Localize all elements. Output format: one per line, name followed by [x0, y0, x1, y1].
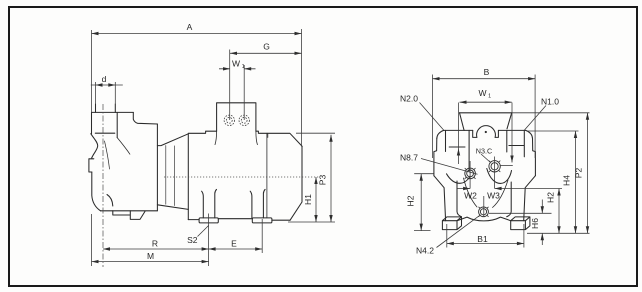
W3 line + H2 ext [495, 188, 562, 190]
svg-text:S2: S2 [187, 235, 198, 245]
foot pad right [511, 217, 530, 230]
casing foot fillet [107, 195, 113, 207]
right view dimension thin lines [414, 75, 590, 248]
arrowheads left view [92, 32, 333, 263]
N1.0 leader [525, 106, 547, 131]
plug N8 (left) [465, 168, 476, 179]
motor end face [290, 147, 302, 221]
plug bottom ext line [489, 212, 552, 214]
right leg outer [524, 176, 536, 221]
ground ext line right [527, 232, 590, 234]
inner volute curve right [493, 180, 509, 208]
svg-text:P3: P3 [318, 175, 328, 186]
dim line R [103, 248, 209, 250]
svg-text:N1.0: N1.0 [541, 97, 559, 107]
W3 arrow [495, 187, 502, 190]
dim line B [433, 78, 536, 80]
dim line d [91, 84, 123, 86]
ext line feet 2 [261, 219, 263, 253]
R arrows [103, 247, 110, 250]
M arrows [92, 260, 99, 263]
B1 ext left [446, 224, 448, 248]
adapter cone [157, 134, 188, 220]
H6 arrows [541, 206, 544, 213]
bowl under plug2 [487, 169, 512, 184]
P3/H1 ext bottom [288, 221, 335, 223]
motor underside left [157, 205, 199, 220]
dim line B1 [447, 243, 524, 245]
motor foot pad 1 [199, 218, 218, 223]
underside between legs [218, 218, 252, 220]
suction pipe stub [96, 104, 116, 112]
W1 arrows [460, 101, 467, 104]
motor top right [256, 131, 302, 146]
face top edges [444, 129, 526, 131]
svg-text:H2: H2 [546, 192, 556, 203]
W1 arrows [223, 67, 230, 70]
bottom dip between feet [457, 217, 511, 221]
cable gland circle 1 (dashed) [224, 115, 249, 125]
dim line W1 [219, 68, 256, 70]
port2 arrow stem [511, 103, 513, 163]
dim line H1 [315, 177, 317, 222]
N3.C leader [481, 154, 491, 163]
ext y131 right [527, 130, 579, 132]
plug N3 (center) [489, 161, 500, 172]
motor leg 2 [250, 189, 265, 218]
casing bottom [101, 210, 158, 212]
casing top curve [133, 112, 157, 124]
svg-text:A: A [187, 22, 193, 32]
arrowheads right view [420, 77, 590, 245]
H2 left ext top [414, 173, 433, 175]
plug2 side line [500, 164, 513, 166]
dim line H2 right [558, 189, 560, 234]
N2.0 leader [420, 103, 444, 131]
svg-text:1: 1 [488, 94, 491, 100]
N8.7 leader [421, 159, 478, 175]
terminal box sides [460, 113, 512, 131]
d arrows [96, 83, 103, 86]
svg-text:H4: H4 [562, 175, 572, 186]
svg-text:P2: P2 [574, 168, 584, 179]
labels right view [400, 67, 583, 256]
H2 left arrows [420, 174, 423, 181]
plug2 stem [494, 157, 496, 189]
top long extension line [512, 112, 590, 114]
motor seam [266, 133, 268, 218]
bottom plug centerline [483, 196, 485, 217]
vertical centerline (dash-dot) [102, 104, 104, 267]
plug1 stem [469, 161, 471, 189]
motor top seam tick [267, 133, 269, 137]
suction funnel taper [91, 134, 98, 158]
volute inner curve [117, 138, 130, 155]
motor axis dotted line [164, 176, 319, 178]
left shoulder [437, 130, 444, 138]
motor foot pad 2 [252, 218, 272, 223]
S2 leader [198, 226, 209, 237]
port2 down arrow [510, 156, 513, 163]
dim line P3 [330, 135, 332, 222]
motor leg 1 [202, 189, 217, 218]
dim line G [230, 52, 302, 54]
pump foot block [113, 211, 145, 220]
H1 arrows [314, 177, 317, 184]
ext line gland 2 [243, 65, 245, 120]
W2 line [457, 188, 470, 190]
ext lines d [96, 82, 116, 104]
svg-text:1: 1 [242, 64, 245, 70]
B ext left [432, 75, 434, 159]
inner volute curve left [464, 178, 478, 207]
B arrows [433, 77, 440, 80]
ext line left (A/M) [91, 30, 93, 266]
port1 arrow stem [458, 103, 460, 165]
dim line E [209, 248, 263, 250]
svg-text:G: G [263, 42, 270, 52]
H2 left ext bottom [414, 230, 431, 232]
dome [477, 126, 496, 138]
terminal box [217, 103, 256, 131]
dim line M [92, 261, 209, 263]
svg-text:W: W [478, 88, 486, 98]
casing right edge [156, 124, 158, 211]
B ext right [534, 75, 536, 159]
P3 ext top [296, 132, 335, 134]
ext line feet 1 [208, 214, 210, 267]
svg-text:M: M [147, 251, 154, 261]
svg-text:E: E [231, 239, 237, 249]
plug N4 (bottom) [479, 207, 489, 217]
svg-text:N3.C: N3.C [476, 147, 492, 156]
port1 up arrow [457, 149, 460, 156]
left port [446, 130, 470, 171]
right port [507, 130, 525, 156]
ext line right (A/G) [301, 29, 303, 147]
dome center dot [485, 131, 487, 133]
suction flange [92, 112, 134, 137]
svg-text:W2: W2 [464, 191, 477, 201]
G arrows [230, 52, 237, 55]
leg inner edges [457, 181, 511, 217]
svg-text:H2: H2 [406, 195, 416, 206]
labels left view [102, 22, 328, 261]
dim line H2 left [420, 174, 422, 231]
right shoulder [526, 130, 533, 138]
svg-text:N8.7: N8.7 [400, 153, 418, 163]
N4.2 leader [437, 215, 481, 248]
dim line P2 [587, 113, 589, 234]
B1 ext right [523, 224, 525, 248]
motor underside right [272, 219, 290, 221]
foot pad left [442, 217, 461, 230]
svg-text:B: B [484, 67, 490, 77]
bowl under plug1 [447, 174, 471, 184]
P3 arrows [329, 135, 332, 142]
B1 arrows [447, 242, 454, 245]
svg-text:H6: H6 [530, 218, 540, 229]
dimension graphics, thin lines [91, 29, 335, 266]
svg-text:H1: H1 [303, 194, 313, 205]
dim line A [92, 33, 302, 35]
terminal box flares [215, 131, 257, 144]
terminal box top [460, 112, 512, 114]
svg-text:W: W [232, 58, 240, 68]
motor top left [188, 131, 216, 133]
left leg outer [434, 176, 446, 221]
H4 arrows [574, 131, 577, 138]
svg-text:R: R [152, 239, 158, 249]
svg-text:N4.2: N4.2 [416, 246, 434, 256]
P2 arrows [586, 113, 589, 120]
left wing [434, 138, 437, 175]
adapter ring lines [166, 146, 175, 206]
E arrows [209, 247, 216, 250]
casing lower-left curve [92, 172, 101, 211]
svg-text:N2.0: N2.0 [400, 94, 418, 104]
svg-text:B1: B1 [477, 234, 488, 244]
funnel inner line [105, 141, 110, 169]
dim line H6 [541, 200, 543, 246]
cable gland circle 2 (dashed) [239, 115, 249, 125]
top step and dome [473, 130, 499, 137]
svg-text:d: d [102, 74, 107, 84]
ext line gland 1 [229, 50, 231, 121]
svg-text:W3: W3 [487, 191, 500, 201]
dim line W1 right view [460, 101, 512, 103]
casing left tab [89, 158, 94, 172]
H2 right arrows [557, 189, 560, 196]
right wing [533, 138, 536, 175]
dim line H4 [575, 131, 577, 233]
W2 arrow [463, 187, 470, 190]
A arrows [92, 32, 99, 35]
